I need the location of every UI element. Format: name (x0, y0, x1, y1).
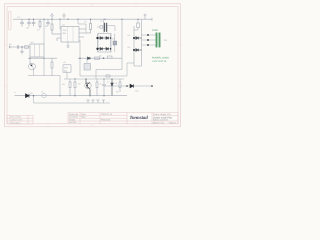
wire: right link down (127, 63, 134, 76)
svg-text:10n: 10n (26, 27, 29, 30)
wire: inner feedback loop (96, 69, 122, 71)
svg-text:Date: Date (81, 113, 86, 116)
svg-text:1k: 1k (100, 83, 102, 86)
wire: vertical from lower-left rail to bottom rail (59, 76, 61, 96)
node mid-left (21, 46, 22, 47)
svg-text:U2: U2 (63, 61, 65, 64)
resistor R7 (74, 79, 76, 96)
svg-text:first release: first release (11, 116, 22, 119)
wire: feedback horizontal (80, 75, 127, 77)
svg-text:Status: Status (69, 118, 76, 121)
power flag PWR3 plus symbol (144, 14, 147, 20)
ground GND1 (20, 47, 24, 54)
diode D8 (111, 79, 114, 96)
wire: bottom rail (15, 95, 128, 97)
wire: drop to startup resistor (51, 19, 53, 24)
wire: mid rail (28, 57, 57, 59)
resistor R8 (96, 79, 98, 96)
component U2 box (63, 65, 71, 73)
transformer T1 (97, 19, 115, 32)
power flag PWR2 (63, 13, 66, 19)
ground GND4 (97, 100, 100, 103)
svg-text:R9: R9 (116, 91, 118, 94)
power flag PWR1 (51, 13, 54, 19)
node lower rail dots (74, 78, 112, 79)
svg-text:Q2: Q2 (78, 83, 81, 86)
node Q1 (31, 65, 33, 67)
wire: bottom right branch (104, 85, 152, 87)
opto U3 box (84, 58, 91, 70)
svg-text:final check: final check (11, 121, 20, 124)
border zone ticks (5, 4, 181, 127)
diode D3 (98, 47, 103, 50)
ground GND5 (102, 100, 105, 103)
diode D2 (103, 37, 109, 40)
op-amp controller U1 (57, 24, 86, 43)
svg-text:TNY: TNY (63, 29, 68, 32)
svg-text:Tonnstad: Tonnstad (130, 115, 149, 121)
wire: bottom link of right buses (134, 65, 142, 67)
opto/bridge box (98, 34, 111, 53)
wire: feedback stub (78, 19, 86, 33)
svg-text:D2: D2 (99, 55, 101, 58)
resistor R6 (51, 58, 53, 75)
wire: drop from top rail to relay (43, 19, 45, 44)
capacitor C6 (17, 45, 18, 49)
node bridge B (96, 48, 98, 50)
revision history table bottom-left (7, 115, 33, 124)
svg-text:+12V OUT 1A: +12V OUT 1A (152, 60, 167, 63)
svg-text:Sheet: Sheet (153, 121, 159, 124)
capacitor C7 (102, 79, 106, 96)
svg-text:D8: D8 (115, 82, 117, 85)
diode D6 (134, 49, 142, 52)
diode D10 dark (130, 84, 133, 88)
resistor R11 (69, 79, 71, 96)
transistor Q2 (85, 79, 91, 96)
resistor R5 (95, 57, 100, 59)
wire: bridge left bus (97, 34, 99, 53)
node right A (133, 37, 135, 39)
node right B (133, 49, 135, 51)
wire: Q1 collector down (33, 70, 35, 76)
wire: ground rail (34, 102, 111, 104)
svg-text:Released: Released (101, 118, 111, 121)
svg-text:flyback converter: flyback converter (153, 119, 168, 122)
node junction dots on top rail (28, 19, 138, 20)
sheet border inner frame (7, 7, 178, 124)
capacitor C1 (20, 19, 24, 26)
transistor Q1 (29, 58, 36, 70)
node bridge A (96, 37, 98, 39)
node branch end (151, 85, 153, 87)
wire: lower-left rail (28, 75, 60, 77)
capacitor C5 electrolytic (113, 34, 117, 53)
svg-text:D10: D10 (135, 90, 138, 93)
node bottom rail dots (33, 95, 105, 97)
relay K1 box (30, 41, 44, 58)
node Q2 dark (86, 85, 88, 87)
diode D9 dark (26, 94, 30, 98)
ground GND2 (87, 100, 90, 103)
node bridge C (110, 37, 112, 39)
svg-text:12V: 12V (164, 39, 168, 42)
wire: rail end tick (151, 18, 153, 22)
ground GND6 under U1 (66, 42, 69, 47)
svg-text:Appr.: Appr. (81, 116, 86, 119)
svg-text:Checked: Checked (69, 116, 78, 119)
svg-text:Doc.No: Doc.No (69, 121, 77, 124)
resistor R4 (25, 46, 29, 48)
svg-text:Rev A: Rev A (170, 121, 176, 124)
connector J1 body (156, 33, 161, 47)
node bridge D (110, 48, 112, 50)
wire: feedback vertical (79, 40, 81, 76)
svg-text:CON1: CON1 (152, 29, 159, 32)
diode D4 (103, 47, 109, 50)
resistor R9 (119, 79, 121, 92)
svg-text:Drawn by: Drawn by (69, 113, 79, 116)
svg-text:1M: 1M (37, 29, 40, 32)
diode D5 (134, 37, 142, 40)
resistor R2 (51, 24, 61, 34)
resistor R3 (86, 19, 92, 33)
node mid rail dots (29, 57, 104, 59)
wire: bottom rail to ground rail (33, 96, 35, 103)
node pin dots (147, 34, 149, 46)
title block table (68, 112, 178, 124)
sheet border outer frame (5, 4, 181, 127)
resistor R10 (108, 56, 113, 58)
svg-text:C7: C7 (107, 81, 109, 84)
lamp/circle component (42, 94, 46, 98)
svg-text:R11: R11 (62, 83, 65, 86)
wire: VCC feed to U1 (60, 19, 61, 29)
connector J1 pins (142, 35, 157, 45)
wire: right vertical bus B (141, 22, 143, 66)
wire: mid-left input (13, 46, 30, 48)
input label flag (9, 46, 13, 48)
hierarchical label green (152, 57, 169, 63)
wire: right vertical bus A (133, 26, 135, 66)
diode D1 (98, 37, 103, 40)
svg-text:D6: D6 (128, 46, 130, 49)
diode D7 (88, 57, 91, 60)
wire: drop from relay right (43, 58, 45, 75)
svg-text:POWER_GOOD: POWER_GOOD (152, 57, 169, 60)
svg-text:R3: R3 (84, 21, 86, 24)
svg-text:D9: D9 (30, 92, 32, 95)
resistor R12 on loop (106, 75, 110, 77)
resistor R1 (39, 19, 41, 28)
ground GND3 (92, 100, 95, 103)
value labels scatter (14, 21, 138, 95)
node right branch (126, 85, 128, 87)
svg-text:D5: D5 (128, 34, 130, 37)
title block text (69, 113, 176, 125)
capacitor C4 (46, 19, 50, 26)
wire: lower mid rail (64, 78, 124, 80)
svg-text:C5: C5 (112, 38, 114, 41)
wire: main +V top rail (13, 18, 152, 20)
wire: bridge right bus (110, 34, 112, 53)
wire: link to top rail (134, 19, 142, 30)
revision capsule left margin (9, 11, 11, 30)
wire: secondary drop (121, 19, 123, 69)
capacitor C2 (27, 19, 31, 26)
svg-text:2003-02-14: 2003-02-14 (101, 113, 113, 116)
capacitor C3 (32, 19, 36, 26)
wire: U2 to lower rail (66, 72, 68, 79)
svg-text:update notes: update notes (11, 119, 23, 122)
